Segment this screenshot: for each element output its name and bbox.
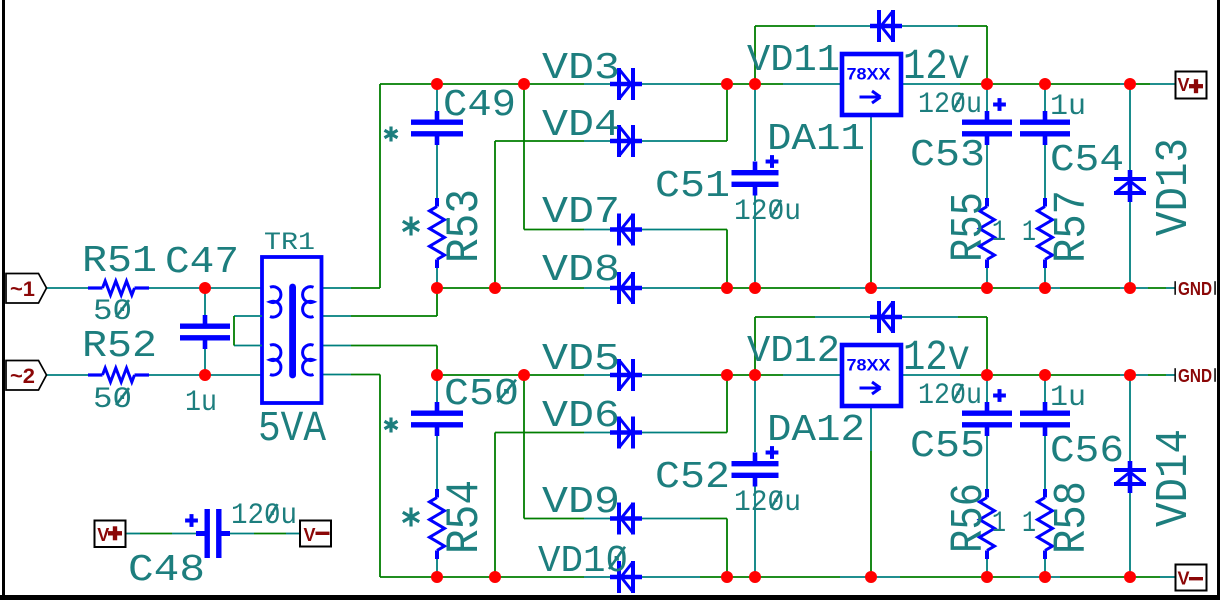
svg-text:~2: ~2 [10, 365, 35, 388]
svg-text:5VA: 5VA [258, 404, 326, 453]
svg-text:V: V [1178, 569, 1190, 589]
svg-text:120u: 120u [734, 195, 801, 229]
svg-text:C50: C50 [444, 373, 519, 416]
svg-text:1u: 1u [1050, 90, 1086, 124]
svg-text:VD7: VD7 [542, 191, 620, 234]
svg-text:C51: C51 [655, 165, 730, 208]
svg-text:R56: R56 [944, 483, 995, 553]
svg-text:V: V [1178, 75, 1190, 95]
svg-text:C56: C56 [1050, 430, 1124, 473]
svg-text:V: V [304, 525, 316, 545]
svg-text:C49: C49 [443, 84, 516, 127]
svg-text:C54: C54 [1050, 139, 1124, 182]
svg-text:1: 1 [992, 507, 1006, 541]
svg-text:78XX: 78XX [847, 66, 891, 84]
svg-text:C48: C48 [128, 549, 205, 592]
svg-text:VD9: VD9 [542, 481, 620, 524]
svg-text:DA12: DA12 [767, 409, 865, 452]
svg-text:R54: R54 [439, 480, 491, 554]
svg-text:R55: R55 [944, 192, 995, 262]
svg-text:C53: C53 [910, 134, 985, 177]
svg-text:R51: R51 [82, 240, 157, 283]
svg-text:VD14: VD14 [1149, 429, 1200, 527]
svg-text:R52: R52 [82, 325, 157, 368]
svg-text:~1: ~1 [10, 278, 35, 301]
svg-text:VD5: VD5 [542, 338, 620, 381]
svg-text:VD13: VD13 [1149, 138, 1200, 236]
svg-text:1: 1 [1022, 507, 1036, 541]
svg-text:120u: 120u [918, 379, 982, 413]
svg-text:VD4: VD4 [542, 104, 620, 147]
svg-text:120u: 120u [918, 88, 982, 122]
svg-text:DA11: DA11 [767, 118, 865, 161]
svg-text:R57: R57 [1047, 190, 1098, 263]
svg-text:VD8: VD8 [542, 249, 620, 292]
svg-text:GND: GND [1178, 278, 1212, 299]
svg-text:V: V [97, 525, 109, 545]
svg-text:12v: 12v [903, 333, 970, 382]
svg-text:120u: 120u [231, 499, 297, 533]
svg-text:50: 50 [93, 295, 132, 329]
svg-text:GND: GND [1178, 365, 1212, 386]
svg-text:C55: C55 [910, 425, 985, 468]
svg-text:TR1: TR1 [264, 228, 315, 257]
svg-text:VD11: VD11 [747, 39, 840, 82]
svg-text:78XX: 78XX [847, 357, 891, 375]
svg-text:C52: C52 [655, 456, 730, 499]
svg-text:R58: R58 [1047, 481, 1098, 554]
svg-text:VD12: VD12 [747, 330, 840, 373]
svg-text:VD3: VD3 [542, 47, 620, 90]
svg-text:1u: 1u [185, 386, 217, 420]
svg-text:1: 1 [1022, 216, 1036, 250]
svg-text:50: 50 [93, 383, 132, 417]
svg-text:R53: R53 [439, 189, 491, 263]
svg-text:12v: 12v [903, 42, 970, 91]
svg-text:1u: 1u [1050, 381, 1086, 415]
svg-text:C47: C47 [165, 241, 239, 284]
svg-text:1: 1 [992, 216, 1006, 250]
svg-text:120u: 120u [734, 486, 801, 520]
svg-text:VD6: VD6 [542, 395, 620, 438]
